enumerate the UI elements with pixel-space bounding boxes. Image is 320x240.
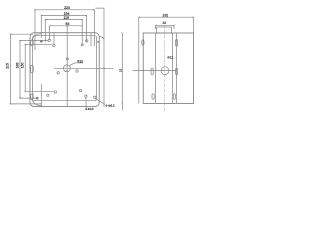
- side slot top-left: [142, 40, 144, 45]
- dashed centerline: [164, 26, 166, 112]
- curved slot bottom-left: [32, 100, 41, 106]
- dim D4 84: [50, 26, 82, 40]
- bottom extension: [40, 84, 42, 107]
- dim D2 194: [41, 15, 86, 41]
- svg-text:32: 32: [163, 21, 167, 25]
- vesa hole: [76, 70, 78, 72]
- extension through hole: [53, 33, 55, 44]
- vesa hole: [57, 72, 59, 74]
- svg-text:215: 215: [6, 63, 10, 69]
- svg-text:116: 116: [63, 16, 69, 20]
- hole: [86, 40, 88, 42]
- side fold line 1: [154, 33, 156, 103]
- plate outline (front view): [30, 33, 99, 107]
- bottom hole: [94, 96, 96, 98]
- dim D3 116: [45, 20, 82, 45]
- boss on top: [157, 27, 172, 33]
- dim 162: [139, 17, 194, 33]
- left edge slot top: [31, 40, 34, 46]
- svg-text:Φ12: Φ12: [167, 56, 173, 60]
- svg-text:Φ15: Φ15: [77, 59, 83, 63]
- side circle crosshair horizontal: [133, 70, 177, 72]
- side slot mid-right: [176, 68, 178, 74]
- svg-text:4-Φ6.5: 4-Φ6.5: [105, 104, 115, 108]
- svg-text:150: 150: [21, 63, 25, 69]
- side slot bottom-left: [152, 94, 154, 99]
- side view body: [143, 33, 193, 103]
- dim162 left extension: [138, 17, 140, 103]
- svg-text:220: 220: [64, 6, 70, 10]
- side fold line 3: [176, 33, 178, 103]
- hole with dot top-left: [40, 40, 42, 42]
- side slot bottom-right: [173, 94, 175, 99]
- left dim L3: [25, 44, 54, 91]
- left dim L1 215: [11, 34, 43, 104]
- short extension: [90, 33, 92, 46]
- svg-text:84: 84: [66, 22, 70, 26]
- side slot mid-left: [151, 68, 153, 74]
- side slot top-right: [176, 40, 178, 47]
- dim D1 220: [35, 10, 95, 50]
- left edge slot mid: [31, 66, 34, 73]
- leader phi15: [70, 63, 84, 66]
- center extension line: [66, 26, 68, 107]
- gap vertical dim line 2: [121, 33, 123, 111]
- vesa hole: [79, 89, 81, 91]
- gap vertical dim hook: [99, 37, 104, 40]
- aux dim top right: [96, 8, 105, 107]
- svg-text:15: 15: [118, 69, 122, 73]
- leader 4-phi10: [85, 97, 88, 108]
- bottom hole dot: [36, 97, 38, 99]
- dim ticks: [10, 9, 195, 105]
- left dim L2: [20, 40, 48, 98]
- hole tiny near edge: [98, 41, 99, 42]
- svg-text:162: 162: [162, 13, 168, 17]
- center crosshair horizontal: [54, 67, 114, 69]
- hole: [48, 39, 50, 41]
- slash on center circle: [65, 70, 67, 72]
- hole: [53, 44, 55, 46]
- svg-text:4-Φ10: 4-Φ10: [85, 107, 94, 111]
- inner fold rectangle: [33, 36, 97, 101]
- leader 4-phi6.5: [95, 98, 105, 104]
- small circle above center: [66, 58, 68, 60]
- curved slot top-left: [32, 34, 41, 40]
- bottom hole: [47, 94, 49, 96]
- svg-text:188: 188: [15, 63, 19, 69]
- bottom hole: [85, 95, 87, 97]
- side circle: [161, 67, 169, 75]
- left edge slot bottom: [31, 94, 34, 100]
- dim 32: [156, 25, 175, 29]
- hole: [81, 44, 83, 46]
- center circle: [63, 65, 70, 72]
- vesa hole: [54, 91, 56, 93]
- side fold line 2: [172, 33, 174, 103]
- dimension texts: [6, 6, 174, 111]
